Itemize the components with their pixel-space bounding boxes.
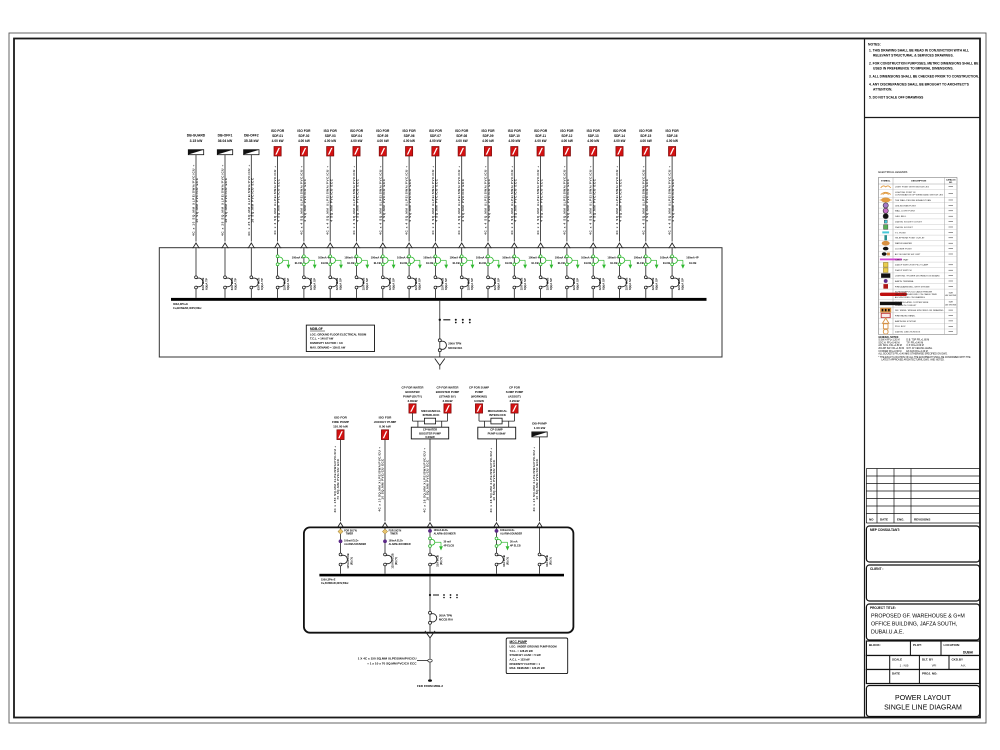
svg-text:CABLE TRAY: CABLE TRAY xyxy=(895,258,909,261)
svg-text:125A MCCB: 125A MCCB xyxy=(391,553,395,568)
svg-text:ISO FOR: ISO FOR xyxy=(297,129,311,133)
svg-text:SDF-07: SDF-07 xyxy=(430,134,441,138)
svg-text:A.K.: A.K. xyxy=(961,664,967,668)
svg-text:5. DO NOT SCALE OFF DRAWINGS: 5. DO NOT SCALE OFF DRAWINGS xyxy=(869,96,924,100)
svg-text:ELCB: ELCB xyxy=(637,261,644,265)
svg-text:16 SQ.MM PVC/CU ECC: 16 SQ.MM PVC/CU ECC xyxy=(250,177,254,223)
svg-text:DB-GUARD: DB-GUARD xyxy=(187,134,206,138)
svg-text:4.00 kW: 4.00 kW xyxy=(403,139,415,143)
svg-text:BLOCK:: BLOCK: xyxy=(869,643,881,647)
svg-text:4.00 kW: 4.00 kW xyxy=(535,139,547,143)
svg-text:SINGLE LINE DIAGRAM: SINGLE LINE DIAGRAM xyxy=(884,705,962,712)
svg-text:(R) (Y): (R) (Y) xyxy=(350,557,354,565)
svg-text:3. ALL DIMENSIONS SHALL BE CHE: 3. ALL DIMENSIONS SHALL BE CHECKED PRIOR… xyxy=(869,75,979,79)
svg-text:6(k)A TP: 6(k)A TP xyxy=(205,278,209,290)
svg-text:DUBAI: DUBAI xyxy=(963,650,973,654)
svg-text:CEILING FAN POINT: CEILING FAN POINT xyxy=(895,204,917,207)
svg-text:REVISIONS: REVISIONS xyxy=(914,517,930,521)
svg-text:6(k)A TP: 6(k)A TP xyxy=(260,278,264,290)
svg-text:30 mA: 30 mA xyxy=(444,540,452,543)
svg-text:ELECTRICAL LEGENDS: ELECTRICAL LEGENDS xyxy=(878,170,907,174)
svg-text:6(k)A SP: 6(k)A SP xyxy=(628,278,632,290)
svg-text:ISO FOR: ISO FOR xyxy=(350,129,364,133)
svg-text:SCALE: SCALE xyxy=(892,658,902,662)
svg-text:(R) (Y): (R) (Y) xyxy=(394,557,398,565)
svg-text:3.00kW: 3.00kW xyxy=(474,399,484,403)
svg-text:(WORKING): (WORKING) xyxy=(471,394,487,398)
svg-text:DRAWN IN CONDUIT: DRAWN IN CONDUIT xyxy=(895,304,917,307)
svg-text:DUBAI.U.A.E.: DUBAI.U.A.E. xyxy=(871,630,904,636)
svg-text:6(k)A SP: 6(k)A SP xyxy=(549,278,553,290)
svg-text:10 SQ.MM PVC/CU ECC: 10 SQ.MM PVC/CU ECC xyxy=(381,458,385,500)
svg-text:FIRE RATED PANEL: FIRE RATED PANEL xyxy=(895,314,916,317)
svg-text:4 SQ.MM PVC/CU ECC: 4 SQ.MM PVC/CU ECC xyxy=(303,178,307,221)
svg-text:4 SQ.MM PVC/CU ECC: 4 SQ.MM PVC/CU ECC xyxy=(329,178,333,221)
svg-text:ISO FOR: ISO FOR xyxy=(334,415,347,419)
svg-text:XLPE/SWA/PVC/CU CABLE FEEDER: XLPE/SWA/PVC/CU CABLE FEEDER xyxy=(895,290,933,293)
svg-text:4 SQ.MM PVC/CU ECC: 4 SQ.MM PVC/CU ECC xyxy=(566,178,570,221)
svg-text:ISO FOR: ISO FOR xyxy=(508,129,522,133)
svg-text:LOC: GROUND FLOOR ELECTRICAL R: LOC: GROUND FLOOR ELECTRICAL ROOM xyxy=(310,332,367,336)
svg-text:SDF-12: SDF-12 xyxy=(561,134,572,138)
svg-text:32A MCB: 32A MCB xyxy=(545,555,549,567)
svg-text:CP-SUMP: CP-SUMP xyxy=(490,428,503,432)
svg-text:FIRE ALARM BELL WITH STROBE: FIRE ALARM BELL WITH STROBE xyxy=(895,285,930,288)
svg-text:ELCB: ELCB xyxy=(347,261,354,265)
svg-text:AS SHOWN: AS SHOWN xyxy=(945,294,956,297)
svg-text:T.C.L. = 140.07 kW: T.C.L. = 140.07 kW xyxy=(310,337,334,341)
svg-text:CLIENT :: CLIENT : xyxy=(870,567,883,571)
svg-text:100mA 4P: 100mA 4P xyxy=(686,256,699,260)
svg-text:TELEPHONE POINT OUTLET: TELEPHONE POINT OUTLET xyxy=(895,238,925,240)
svg-text:FED FROM MDB-2: FED FROM MDB-2 xyxy=(417,684,443,688)
svg-text:20A DP SWITCH: 20A DP SWITCH xyxy=(895,269,912,272)
svg-text:* THE EXACT LOCATION OF ALL TH: * THE EXACT LOCATION OF ALL THE EQUIPMEN… xyxy=(878,356,971,359)
svg-text:MAX. DEMAND = 123.20 kW: MAX. DEMAND = 123.20 kW xyxy=(510,666,546,670)
svg-text:6(k)A SP: 6(k)A SP xyxy=(312,278,316,290)
svg-text:LATEST APPROVED ARCHITECTURAL: LATEST APPROVED ARCHITECTURAL DWG. AND N… xyxy=(881,359,944,362)
svg-text:A.C.L. = 123 kW: A.C.L. = 123 kW xyxy=(510,658,531,662)
svg-text:AS OTHERWISE SPECIFIED ON DWG.: AS OTHERWISE SPECIFIED ON DWG. xyxy=(906,353,948,356)
svg-text:MCCB R/A: MCCB R/A xyxy=(439,618,453,622)
svg-text:GENERAL NOTES:: GENERAL NOTES: xyxy=(878,336,899,339)
svg-text:DB-OFF2: DB-OFF2 xyxy=(244,134,259,138)
svg-text:4 SQ.MM PVC/CU ECC: 4 SQ.MM PVC/CU ECC xyxy=(382,178,386,221)
svg-text:Cu,BUSBAR,400V,50Hz: Cu,BUSBAR,400V,50Hz xyxy=(321,582,349,585)
svg-text:DLT. BY: DLT. BY xyxy=(922,658,933,662)
svg-text:4 SQ.MM PVC/CU ECC: 4 SQ.MM PVC/CU ECC xyxy=(513,178,517,221)
svg-text:LIGHT POINT WITH SWITCH LEG: LIGHT POINT WITH SWITCH LEG xyxy=(895,187,929,189)
svg-text:10 SQ.MM PVC/CU ECC: 10 SQ.MM PVC/CU ECC xyxy=(195,177,199,223)
svg-text:4 SQ.MM PVC/CU ECC: 4 SQ.MM PVC/CU ECC xyxy=(645,178,649,221)
svg-text:ELCB: ELCB xyxy=(479,261,486,265)
svg-text:ELCB: ELCB xyxy=(610,261,617,265)
svg-text:CONTINUATION OF WIRING AND SWI: CONTINUATION OF WIRING AND SWITCH LEG xyxy=(895,194,944,197)
svg-text:DB / SMDB / MDB AS SPECIFIED O: DB / SMDB / MDB AS SPECIFIED ON DRAWING xyxy=(895,309,944,312)
svg-text:300A,3Ph+E: 300A,3Ph+E xyxy=(173,302,188,306)
svg-text:C.P. FFL+0.60 M: C.P. FFL+0.60 M xyxy=(906,345,923,347)
svg-text:CKD.BY: CKD.BY xyxy=(952,658,964,662)
svg-text:32A MCB: 32A MCB xyxy=(502,555,506,567)
svg-text:AS SHOWN: AS SHOWN xyxy=(945,303,956,306)
svg-text:ELCB: ELCB xyxy=(321,261,328,265)
svg-text:4 SQ.MM PVC/CU ECC: 4 SQ.MM PVC/CU ECC xyxy=(277,178,281,221)
svg-text:PROJ. NO:: PROJ. NO: xyxy=(922,672,937,676)
svg-text:SOC.H. FFL+0.40 M: SOC.H. FFL+0.40 M xyxy=(878,342,899,344)
svg-text:4.00 kW: 4.00 kW xyxy=(429,139,441,143)
svg-text:4.00 kW: 4.00 kW xyxy=(587,139,599,143)
svg-text:SIZE: SIZE xyxy=(949,301,954,303)
svg-text:SUMP PUMP: SUMP PUMP xyxy=(506,390,524,394)
svg-text:4.00 kW: 4.00 kW xyxy=(640,139,652,143)
svg-text:4 SQ.MM PVC/CU ECC: 4 SQ.MM PVC/CU ECC xyxy=(671,178,675,221)
svg-text:SDF-01: SDF-01 xyxy=(272,134,283,138)
svg-text:AS SPECIFIED ON DRAWING: AS SPECIFIED ON DRAWING xyxy=(895,296,925,299)
svg-text:CP FOR SUMP: CP FOR SUMP xyxy=(469,385,489,389)
svg-text:SYMBOL: SYMBOL xyxy=(881,181,891,183)
svg-text:8.00 kW: 8.00 kW xyxy=(379,425,391,429)
svg-text:SDF-05: SDF-05 xyxy=(377,134,388,138)
svg-text:6(k)A SP: 6(k)A SP xyxy=(654,278,658,290)
svg-text:MDB-GF: MDB-GF xyxy=(310,327,323,331)
svg-text:SDF-06: SDF-06 xyxy=(404,134,415,138)
svg-text:INTERLOCK: INTERLOCK xyxy=(423,413,441,417)
svg-text:POWER LAYOUT: POWER LAYOUT xyxy=(895,695,952,702)
svg-text:10 SQ.MM PVC/CU ECC: 10 SQ.MM PVC/CU ECC xyxy=(535,458,539,500)
svg-text:INTERLOCK: INTERLOCK xyxy=(489,413,507,417)
svg-text:SDF-02: SDF-02 xyxy=(298,134,309,138)
svg-text:A/C ISOLATOR SW. UNIT: A/C ISOLATOR SW. UNIT xyxy=(895,253,921,256)
svg-text:SDF-14: SDF-14 xyxy=(614,134,625,138)
svg-text:EARTH TERMINAL: EARTH TERMINAL xyxy=(895,280,915,283)
svg-text:STAND BY LOAD = 5 kW: STAND BY LOAD = 5 kW xyxy=(510,653,542,657)
svg-text:1 X 4C x 150 SQ.MM XLPE/SWA/PV: 1 X 4C x 150 SQ.MM XLPE/SWA/PVC/CU xyxy=(358,656,418,660)
svg-text:PROPOSED GF. WAREHOUSE & G+M: PROPOSED GF. WAREHOUSE & G+M xyxy=(871,614,965,620)
svg-text:4.00 kW: 4.00 kW xyxy=(456,139,468,143)
svg-text:4 SQ.MM PVC/CU ECC: 4 SQ.MM PVC/CU ECC xyxy=(487,178,491,221)
svg-text:TIMER: TIMER xyxy=(390,533,398,536)
svg-text:ISO FOR: ISO FOR xyxy=(455,129,469,133)
svg-text:3.00kW: 3.00kW xyxy=(443,399,453,403)
svg-text:SDF-11: SDF-11 xyxy=(535,134,546,138)
svg-text:4.00 kW: 4.00 kW xyxy=(561,139,573,143)
svg-text:NO: NO xyxy=(869,517,874,521)
svg-text:ISO FOR: ISO FOR xyxy=(560,129,574,133)
svg-text:SDF-10: SDF-10 xyxy=(509,134,520,138)
svg-text:W.H. AT CEILING LEVEL: W.H. AT CEILING LEVEL xyxy=(906,347,933,350)
svg-text:CATALOG: CATALOG xyxy=(946,179,956,182)
svg-text:PROJECT TITLE:: PROJECT TITLE: xyxy=(870,606,896,610)
svg-text:3.00kW: 3.00kW xyxy=(408,399,418,403)
svg-text:S.SW.H FFL+1.20 M: S.SW.H FFL+1.20 M xyxy=(878,340,899,342)
svg-text:VFI: VFI xyxy=(932,664,937,668)
svg-text:(R) (Y): (R) (Y) xyxy=(439,557,443,565)
svg-text:16 SQ.MM PVC/CU ECC: 16 SQ.MM PVC/CU ECC xyxy=(224,177,228,223)
svg-text:6(k)A SP: 6(k)A SP xyxy=(444,278,448,290)
svg-text:ALARM+SOUNDER: ALARM+SOUNDER xyxy=(389,543,411,546)
svg-text:ISO FOR: ISO FOR xyxy=(379,415,392,419)
svg-text:6(k)A SP: 6(k)A SP xyxy=(523,278,527,290)
svg-text:SDF-03: SDF-03 xyxy=(325,134,336,138)
svg-text:FIRE PUMP: FIRE PUMP xyxy=(332,420,349,424)
svg-text:35.38 kW: 35.38 kW xyxy=(244,139,259,143)
svg-text:4.00 kW: 4.00 kW xyxy=(298,139,310,143)
svg-text:(R) (Y): (R) (Y) xyxy=(549,557,553,565)
svg-text:32A MCB: 32A MCB xyxy=(436,555,440,567)
svg-text:125A MCCB: 125A MCCB xyxy=(346,553,350,568)
svg-text:4 SQ.MM PVC/CU ECC: 4 SQ.MM PVC/CU ECC xyxy=(356,178,360,221)
svg-text:CP FOR WATER: CP FOR WATER xyxy=(437,385,460,389)
svg-text:TIMER: TIMER xyxy=(346,533,354,536)
svg-text:16 SQ.MM PVC/CU ECC: 16 SQ.MM PVC/CU ECC xyxy=(492,459,496,501)
svg-text:6(k)A TP: 6(k)A TP xyxy=(234,278,238,290)
svg-text:PUMP: PUMP xyxy=(475,390,483,394)
svg-text:SDF-15: SDF-15 xyxy=(640,134,651,138)
svg-text:SDF-13: SDF-13 xyxy=(588,134,599,138)
svg-text:Cu,BUSBAR,400V,50Hz: Cu,BUSBAR,400V,50Hz xyxy=(173,306,202,310)
svg-text:4. ANY DISCREPANCIES SHALL BE: 4. ANY DISCREPANCIES SHALL BE BROUGHT TO… xyxy=(869,83,970,87)
svg-text:SDF-16: SDF-16 xyxy=(667,134,678,138)
svg-text:WALL LIGHT POINT: WALL LIGHT POINT xyxy=(895,210,916,213)
svg-text:4.00 kW: 4.00 kW xyxy=(272,139,284,143)
svg-text:USED IN PREFERENCE TO IMPERIAL: USED IN PREFERENCE TO IMPERIAL DIMENSION… xyxy=(873,67,954,71)
svg-text:ELCB: ELCB xyxy=(505,261,512,265)
svg-text:(STAND BY): (STAND BY) xyxy=(439,394,456,398)
svg-text:ISO FOR: ISO FOR xyxy=(613,129,627,133)
svg-text:4.00 kW: 4.00 kW xyxy=(666,139,678,143)
svg-text:20A DP SW. FFL+1.80 M: 20A DP SW. FFL+1.80 M xyxy=(878,347,904,350)
svg-text:RELEVANT STRUCTURAL & SERVICE: RELEVANT STRUCTURAL & SERVICES DRAWINGS. xyxy=(873,54,954,58)
svg-text:MEP CONSULTANT:: MEP CONSULTANT: xyxy=(870,528,900,532)
svg-text:6(k)A SP: 6(k)A SP xyxy=(470,278,474,290)
svg-text:EARTHING SYSTEM: EARTHING SYSTEM xyxy=(895,320,916,323)
svg-text:NOTES:: NOTES: xyxy=(868,43,881,47)
svg-text:T.P. FFL+0.40 M: T.P. FFL+0.40 M xyxy=(906,342,923,344)
svg-text:6(k)A SP: 6(k)A SP xyxy=(365,278,369,290)
svg-text:20A DP SWITCH W/ PILOT LAMP: 20A DP SWITCH W/ PILOT LAMP xyxy=(895,264,929,267)
svg-text:MCC-PUMP: MCC-PUMP xyxy=(510,640,528,644)
svg-text:+ 1 x 10 x 70 SQ.MM PVC/CU ECC: + 1 x 10 x 70 SQ.MM PVC/CU ECC xyxy=(367,661,417,665)
svg-text:ELCB: ELCB xyxy=(295,261,302,265)
svg-text:1.00 kW: 1.00 kW xyxy=(534,426,546,430)
svg-text:ELCB: ELCB xyxy=(453,261,460,265)
svg-text:6(k)A SP: 6(k)A SP xyxy=(497,278,501,290)
svg-text:30 mA: 30 mA xyxy=(510,540,518,543)
svg-text:4 SQ.MM PVC/CU ECC: 4 SQ.MM PVC/CU ECC xyxy=(408,178,412,221)
svg-text:6(k)A SP: 6(k)A SP xyxy=(339,278,343,290)
svg-text:4.00 kW: 4.00 kW xyxy=(482,139,494,143)
svg-text:1 : N.B: 1 : N.B xyxy=(900,664,909,668)
svg-text:16 SQ.MM PVC/CU ECC: 16 SQ.MM PVC/CU ECC xyxy=(426,459,430,501)
svg-text:13A SW. SOCKET OUTLET: 13A SW. SOCKET OUTLET xyxy=(895,221,923,224)
svg-text:SDF-08: SDF-08 xyxy=(456,134,467,138)
svg-text:DIVERSITY FACTOR = 0.8: DIVERSITY FACTOR = 0.8 xyxy=(310,341,343,345)
svg-text:OFFICE BUILDING, JAFZA SOUTH,: OFFICE BUILDING, JAFZA SOUTH, xyxy=(871,622,957,628)
svg-text:EX.FAN FFL+2.40 M: EX.FAN FFL+2.40 M xyxy=(906,350,927,353)
svg-text:3.15 kW: 3.15 kW xyxy=(190,139,203,143)
svg-text:ISO FOR: ISO FOR xyxy=(666,129,680,133)
svg-text:4P ELCB: 4P ELCB xyxy=(510,545,521,548)
svg-text:PUMP 6.00kW: PUMP 6.00kW xyxy=(488,431,506,435)
svg-text:3.20kW: 3.20kW xyxy=(510,399,520,403)
svg-text:ISO FOR: ISO FOR xyxy=(324,129,338,133)
svg-text:THE WALL/CEILING EXHAUST FAN: THE WALL/CEILING EXHAUST FAN xyxy=(895,199,931,202)
svg-text:SIZE: SIZE xyxy=(949,292,954,294)
svg-text:ALARM+SOUNDER: ALARM+SOUNDER xyxy=(344,543,366,546)
svg-text:6.00kW: 6.00kW xyxy=(425,435,435,439)
svg-text:6(k)A SP: 6(k)A SP xyxy=(681,278,685,290)
svg-text:2. FOR CONSTRUCTION PURPOSES,: 2. FOR CONSTRUCTION PURPOSES, METRIC DIM… xyxy=(869,62,979,66)
svg-text:BOOSTER: BOOSTER xyxy=(405,390,420,394)
svg-text:NO.: NO. xyxy=(949,182,953,184)
svg-text:ISO FOR: ISO FOR xyxy=(403,129,417,133)
svg-text:ISO FOR: ISO FOR xyxy=(481,129,495,133)
svg-text:ELCB: ELCB xyxy=(374,261,381,265)
svg-text:LIGHTING POINT IN: LIGHTING POINT IN xyxy=(895,192,916,194)
svg-text:DESCRIPTION: DESCRIPTION xyxy=(911,181,926,183)
svg-text:15A SW. SOCKET: 15A SW. SOCKET xyxy=(895,226,914,229)
svg-text:DATE: DATE xyxy=(892,672,900,676)
svg-text:4 SQ.MM PVC/CU ECC: 4 SQ.MM PVC/CU ECC xyxy=(435,178,439,221)
svg-text:LAID UNDERGROUND / ON CABLE TR: LAID UNDERGROUND / ON CABLE TRAY xyxy=(895,293,938,296)
svg-text:ALL SOCKETS FFL+0.40 M: ALL SOCKETS FFL+0.40 M xyxy=(878,353,907,356)
svg-text:6(k)A SP: 6(k)A SP xyxy=(575,278,579,290)
svg-text:4P ELCB: 4P ELCB xyxy=(444,545,455,548)
svg-text:SDF-09: SDF-09 xyxy=(483,134,494,138)
svg-text:20A SW. JUNCTION BOX: 20A SW. JUNCTION BOX xyxy=(895,331,921,334)
svg-text:ATTENTION.: ATTENTION. xyxy=(873,88,892,92)
svg-text:ALARM+SOUNDER: ALARM+SOUNDER xyxy=(500,532,522,535)
svg-text:COOKER POINT: COOKER POINT xyxy=(895,249,912,251)
svg-text:36.04 kW: 36.04 kW xyxy=(218,139,233,143)
svg-text:6(k)A SP: 6(k)A SP xyxy=(286,278,290,290)
svg-text:DB-OFF1: DB-OFF1 xyxy=(218,134,233,138)
svg-text:BOOSTER PUMP: BOOSTER PUMP xyxy=(436,390,460,394)
svg-text:ELCB: ELCB xyxy=(689,261,696,265)
svg-text:1. THIS DRAWING SHALL BE READ: 1. THIS DRAWING SHALL BE READ IN CONJUNC… xyxy=(869,49,969,53)
svg-text:ISO FOR: ISO FOR xyxy=(587,129,601,133)
svg-text:MAX. DEMAND = 139.01 kW: MAX. DEMAND = 139.01 kW xyxy=(310,346,346,350)
svg-text:110.00 kW: 110.00 kW xyxy=(333,425,348,429)
svg-text:LOCATION:: LOCATION: xyxy=(944,643,960,647)
svg-text:ELCB: ELCB xyxy=(558,261,565,265)
svg-text:(R) (Y): (R) (Y) xyxy=(506,557,510,565)
svg-text:4 SQ.MM PVC/CU ECC: 4 SQ.MM PVC/CU ECC xyxy=(592,178,596,221)
svg-text:ISO FOR: ISO FOR xyxy=(429,129,443,133)
svg-text:4 SQ.MM PVC/CU ECC: 4 SQ.MM PVC/CU ECC xyxy=(540,178,544,221)
svg-text:PUMP (DUTY): PUMP (DUTY) xyxy=(403,394,422,398)
svg-text:DATE: DATE xyxy=(880,517,888,521)
svg-text:4.00 kW: 4.00 kW xyxy=(377,139,389,143)
svg-text:4 SQ.MM PVC/CU ECC: 4 SQ.MM PVC/CU ECC xyxy=(619,178,623,221)
svg-text:MCCB R/A: MCCB R/A xyxy=(448,346,462,350)
svg-text:BOOSTER PUMP: BOOSTER PUMP xyxy=(419,431,441,435)
svg-text:6(k)A SP: 6(k)A SP xyxy=(391,278,395,290)
svg-text:70 SQ.MM PVC/CU ECC: 70 SQ.MM PVC/CU ECC xyxy=(336,458,340,500)
svg-text:SDF-04: SDF-04 xyxy=(351,134,362,138)
svg-text:LOC: UNDER GROUND PUMP ROOM: LOC: UNDER GROUND PUMP ROOM xyxy=(510,645,558,649)
svg-text:4.00 kW: 4.00 kW xyxy=(614,139,626,143)
svg-text:CALL BELL: CALL BELL xyxy=(895,215,907,218)
svg-text:4.00 kW: 4.00 kW xyxy=(508,139,520,143)
svg-text:T.C.L. = 128.20 kW: T.C.L. = 128.20 kW xyxy=(510,649,534,653)
svg-text:DB-PUMP: DB-PUMP xyxy=(532,421,546,425)
svg-text:COOKER FFL+0.60 M: COOKER FFL+0.60 M xyxy=(878,351,901,353)
svg-text:ELCB: ELCB xyxy=(584,261,591,265)
svg-text:ALARM+SOUNDER: ALARM+SOUNDER xyxy=(434,532,456,535)
svg-text:JOCKEY PUMP: JOCKEY PUMP xyxy=(374,420,396,424)
svg-text:4.00 kW: 4.00 kW xyxy=(324,139,336,143)
svg-text:ISO FOR: ISO FOR xyxy=(639,129,653,133)
svg-text:ELCB: ELCB xyxy=(663,261,670,265)
svg-text:ISO FOR: ISO FOR xyxy=(376,129,390,133)
svg-text:CP FOR: CP FOR xyxy=(509,385,521,389)
svg-text:ELCB: ELCB xyxy=(532,261,539,265)
svg-text:(ASSIST): (ASSIST) xyxy=(508,394,520,398)
svg-text:ISO FOR: ISO FOR xyxy=(271,129,285,133)
svg-text:WATER HEATER: WATER HEATER xyxy=(895,242,912,245)
svg-text:6(k)A SP: 6(k)A SP xyxy=(602,278,606,290)
svg-text:A/C ISOL. FFL+1.80 M: A/C ISOL. FFL+1.80 M xyxy=(878,344,902,347)
svg-text:D.B. TOP FFL+1.80 M: D.B. TOP FFL+1.80 M xyxy=(906,340,929,342)
svg-text:DIVERSITY FACTOR = 1: DIVERSITY FACTOR = 1 xyxy=(510,662,541,666)
svg-text:CP FOR WATER: CP FOR WATER xyxy=(402,385,425,389)
svg-text:T.V. POINT: T.V. POINT xyxy=(895,232,907,234)
svg-text:4.00 kW: 4.00 kW xyxy=(351,139,363,143)
svg-text:4 SQ.MM PVC/CU ECC: 4 SQ.MM PVC/CU ECC xyxy=(461,178,465,221)
svg-text:6(k)A SP: 6(k)A SP xyxy=(418,278,422,290)
svg-text:ENG.: ENG. xyxy=(897,517,905,521)
svg-text:PULL BOX: PULL BOX xyxy=(895,326,906,328)
svg-text:ELCB: ELCB xyxy=(400,261,407,265)
svg-text:ISO FOR: ISO FOR xyxy=(534,129,548,133)
svg-text:ELCB: ELCB xyxy=(426,261,433,265)
svg-text:PLOT:: PLOT: xyxy=(913,643,922,647)
svg-text:PVC INSULATED COPPER WIRE: PVC INSULATED COPPER WIRE xyxy=(895,301,929,304)
svg-text:LIGHTING / POWER DISTRIBUTION: LIGHTING / POWER DISTRIBUTION BOARD xyxy=(895,275,940,278)
svg-text:CP-WATER: CP-WATER xyxy=(423,428,437,432)
